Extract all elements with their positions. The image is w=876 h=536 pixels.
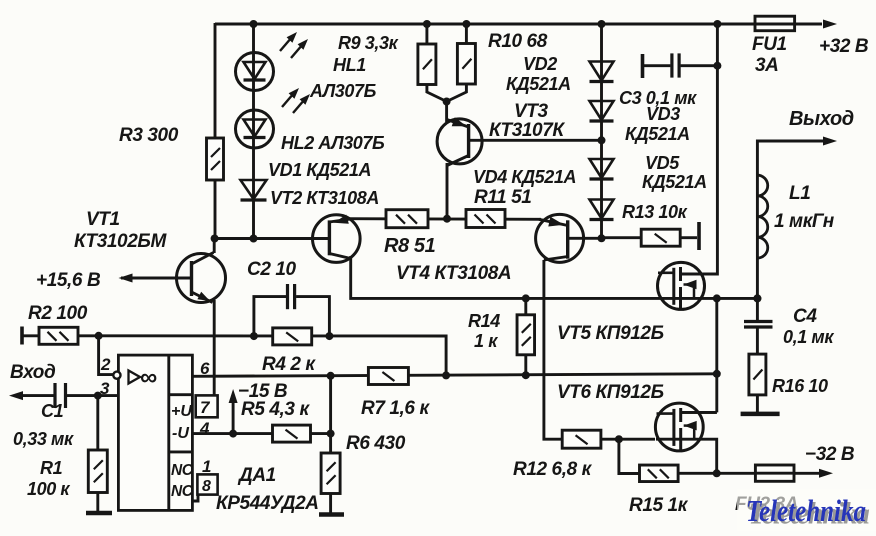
resistor R7 bbox=[361, 368, 430, 420]
svg-text:R11 51: R11 51 bbox=[474, 187, 531, 208]
diode VD5 bbox=[590, 200, 614, 220]
wire VT2 emitter down and across to VT5 gate bbox=[351, 256, 758, 298]
svg-text:VT3: VT3 bbox=[514, 101, 548, 122]
diode VD2 bbox=[590, 62, 614, 82]
op-amp DA1 box bbox=[118, 355, 192, 510]
wire R10 top stub bbox=[465, 24, 468, 46]
junction VT3 base / diode chain bbox=[598, 136, 606, 144]
LED HL1 bbox=[236, 32, 367, 91]
junction top rail / LED chain bbox=[250, 20, 258, 28]
capacitor C4 bbox=[744, 306, 834, 347]
resistor R12 bbox=[513, 430, 601, 480]
transistor VT3 bbox=[437, 101, 565, 166]
wire C4 R16 vertical bbox=[756, 298, 759, 414]
svg-text:VT5 КП912Б: VT5 КП912Б bbox=[557, 323, 664, 344]
junction top rail / R10 bbox=[462, 20, 470, 28]
junction C2 loop left bbox=[250, 332, 258, 340]
pin 3 label bbox=[100, 379, 110, 398]
junction pin4 line / -15V bbox=[229, 430, 237, 438]
junction C4 node bbox=[753, 294, 761, 302]
resistor R9 bbox=[338, 33, 436, 85]
svg-text:АЛ307Б: АЛ307Б bbox=[309, 81, 377, 101]
svg-text:8: 8 bbox=[202, 478, 211, 495]
svg-text:R14: R14 bbox=[468, 311, 500, 331]
junction C1 / R1 / pin3 bbox=[94, 392, 102, 400]
svg-text:∞: ∞ bbox=[140, 364, 157, 391]
svg-text:КД521А: КД521А bbox=[506, 74, 571, 94]
wire C1 input line bbox=[20, 394, 118, 397]
svg-text:L1: L1 bbox=[789, 183, 810, 204]
wire R2 input line bbox=[22, 334, 99, 337]
wire R15 branch bbox=[619, 439, 640, 473]
svg-text:3А: 3А bbox=[755, 55, 779, 76]
svg-text:VD4 КД521А: VD4 КД521А bbox=[473, 167, 576, 187]
svg-text:1 мкГн: 1 мкГн bbox=[774, 211, 835, 232]
wire R9 top stub bbox=[425, 24, 428, 46]
label KD521A VD3 bbox=[625, 124, 690, 144]
wire R4 feedback line bbox=[99, 336, 447, 376]
wire VT3 base to diode chain bbox=[470, 139, 602, 142]
svg-text:-U: -U bbox=[172, 425, 189, 442]
wire diode chain vertical bbox=[600, 24, 603, 239]
resistor R1 bbox=[27, 450, 107, 499]
wire L1 output vertical bbox=[757, 141, 823, 299]
label Vyhod bbox=[789, 108, 854, 130]
capacitor C1 bbox=[13, 383, 74, 449]
label +15.6V bbox=[36, 270, 101, 291]
svg-text:HL2 АЛ307Б: HL2 АЛ307Б bbox=[281, 133, 385, 153]
wire VT5 drain riser bbox=[681, 24, 718, 274]
junction R2 / feedback line bbox=[95, 332, 103, 340]
capacitor C2 bbox=[247, 259, 297, 309]
label AL307B for HL1 bbox=[309, 81, 377, 101]
transistor VT2 bbox=[313, 215, 361, 263]
wire VT3 emitter up bbox=[445, 100, 448, 122]
junction top rail / diode chain bbox=[598, 20, 606, 28]
resistor R2 bbox=[22, 303, 88, 345]
wire minus15 arrow stub bbox=[232, 399, 235, 434]
svg-text:6: 6 bbox=[200, 359, 210, 378]
wire VT4 base to diode chain bottom bbox=[568, 237, 602, 240]
svg-text:R16 10: R16 10 bbox=[772, 376, 828, 396]
svg-text:R13 10к: R13 10к bbox=[622, 202, 688, 222]
wire R12 to VT6 gate bbox=[601, 438, 655, 441]
junction top rail / R9 bbox=[423, 20, 431, 28]
wire VT1 emitter down to pin 7 bbox=[213, 300, 216, 397]
wire +32V top rail bbox=[215, 23, 822, 26]
junction C2 loop right / R4 bbox=[325, 332, 333, 340]
svg-text:R9 3,3к: R9 3,3к bbox=[338, 33, 399, 53]
ground under R6 bbox=[319, 512, 344, 517]
junction R12 / R15 branch bbox=[615, 435, 623, 443]
label VD4 bbox=[473, 167, 576, 187]
label C3 bbox=[619, 88, 697, 108]
svg-text:R3 300: R3 300 bbox=[119, 125, 179, 146]
resistor R15 bbox=[629, 465, 689, 516]
wire R10 bottom converge bbox=[447, 82, 467, 102]
svg-text:Вход: Вход bbox=[10, 362, 56, 383]
LED HL2 bbox=[236, 88, 311, 148]
pin 7 box bbox=[196, 395, 218, 417]
label -U bbox=[172, 425, 189, 442]
svg-text:Выход: Выход bbox=[789, 108, 854, 130]
watermark Teletehnika bbox=[737, 489, 876, 531]
svg-text:R7 1,6 к: R7 1,6 к bbox=[361, 398, 430, 419]
svg-text:+32 В: +32 В bbox=[819, 36, 869, 57]
ground under R1 bbox=[86, 511, 112, 516]
label VT2 type bbox=[270, 188, 379, 208]
inductor L1 bbox=[757, 175, 834, 258]
capacitor C3 bbox=[643, 53, 680, 78]
svg-text:C1: C1 bbox=[41, 401, 64, 421]
svg-text:R10 68: R10 68 bbox=[488, 31, 548, 52]
svg-text:VD5: VD5 bbox=[645, 153, 680, 173]
junction pin4 line / R6 bbox=[327, 430, 335, 438]
fuse FU1 bbox=[752, 16, 795, 76]
wire C2 loop bbox=[254, 297, 286, 337]
svg-text:VD2: VD2 bbox=[523, 54, 557, 74]
junction R15 / FU2 / VT6 source bbox=[713, 469, 721, 477]
label VD2 bbox=[506, 54, 571, 94]
diode VD1 bbox=[241, 160, 372, 200]
label VT5 type bbox=[557, 323, 664, 344]
pin 4 label bbox=[199, 419, 210, 438]
svg-text:4: 4 bbox=[199, 419, 210, 438]
svg-text:R5 4,3 к: R5 4,3 к bbox=[241, 399, 310, 420]
terminal bar R13 bbox=[697, 222, 701, 250]
wire pin 2 branch bbox=[99, 335, 113, 375]
svg-text:ДА1: ДА1 bbox=[237, 465, 276, 486]
resistor R16 bbox=[749, 354, 828, 396]
svg-text:C4: C4 bbox=[793, 306, 817, 327]
svg-text:+15,6 В: +15,6 В bbox=[36, 270, 101, 291]
svg-text:C2 10: C2 10 bbox=[247, 259, 297, 280]
wire output node vertical bbox=[715, 298, 718, 412]
wire R8 line VT2 collector to VT4 emitter bbox=[349, 217, 541, 221]
svg-text:+U: +U bbox=[171, 403, 192, 420]
label KD521A VD5 bbox=[642, 172, 707, 192]
svg-text:VT6 КП912Б: VT6 КП912Б bbox=[557, 382, 664, 403]
wire R3 vertical branch bbox=[214, 23, 217, 240]
resistor R8 bbox=[384, 210, 436, 257]
wire VT6 chord to source corner bbox=[656, 439, 717, 473]
resistor R14 bbox=[468, 311, 535, 355]
svg-text:2: 2 bbox=[100, 355, 111, 374]
svg-text:КД521А: КД521А bbox=[642, 172, 707, 192]
svg-text:VT4 КТ3108А: VT4 КТ3108А bbox=[396, 263, 511, 284]
svg-text:КТ3107К: КТ3107К bbox=[489, 120, 565, 141]
arrow output bbox=[823, 137, 837, 146]
arrow -15V bbox=[229, 381, 288, 403]
junction output line end / output node bbox=[713, 370, 721, 378]
label +U bbox=[171, 403, 192, 420]
diode VD3 bbox=[590, 101, 614, 121]
svg-text:R12 6,8 к: R12 6,8 к bbox=[513, 459, 593, 480]
svg-text:R8 51: R8 51 bbox=[384, 235, 436, 257]
wire R1 vertical bbox=[96, 396, 99, 513]
svg-text:R1: R1 bbox=[40, 458, 63, 478]
svg-text:NC: NC bbox=[171, 462, 194, 479]
wire -32V line bbox=[678, 472, 820, 475]
junction LED chain bottom bbox=[250, 235, 258, 243]
diode VD4 bbox=[590, 159, 614, 179]
transistor VT4 bbox=[536, 214, 584, 262]
label VT4 type bbox=[396, 263, 511, 284]
wire VT6 drain lead bbox=[681, 411, 717, 414]
junction diode chain bottom / VT4 base bbox=[598, 234, 606, 242]
arrow input bbox=[9, 391, 23, 400]
junction gate wire / output node bbox=[713, 294, 721, 302]
label NC top bbox=[171, 462, 194, 479]
arrow +32V bbox=[819, 20, 869, 58]
svg-text:VD3: VD3 bbox=[646, 104, 680, 124]
label DA1 bbox=[216, 465, 319, 514]
svg-text:FU1: FU1 bbox=[752, 34, 787, 55]
pin 8 box bbox=[192, 474, 217, 501]
resistor R3 bbox=[119, 125, 224, 180]
junction C3 / drain riser bbox=[713, 62, 721, 70]
junction gate wire / R14 top bbox=[522, 294, 530, 302]
wire VT1 collector to VT2 base horizontal bbox=[214, 237, 330, 240]
label VD3 bbox=[646, 104, 680, 124]
wire VT3 collector down bbox=[446, 163, 449, 219]
label HL2 AL307B bbox=[281, 133, 385, 153]
junction R3 / VT1 collector bbox=[211, 235, 219, 243]
pin 2 inversion circle bbox=[100, 355, 121, 379]
wire R13 line bbox=[602, 236, 698, 239]
junction top rail / VT5 drain riser bbox=[713, 20, 721, 28]
resistor R11 bbox=[466, 187, 531, 228]
op-amp symbol triangle-infinity bbox=[129, 364, 158, 391]
transistor VT1 bbox=[74, 209, 226, 303]
mosfet VT5 bbox=[658, 262, 717, 309]
svg-text:R15 1к: R15 1к bbox=[629, 495, 689, 516]
resistor R4 bbox=[262, 328, 316, 375]
wire pin 4 line bbox=[192, 432, 330, 435]
svg-text:HL1: HL1 bbox=[333, 55, 366, 75]
pin 6 label bbox=[200, 359, 210, 378]
resistor R10 bbox=[457, 31, 547, 84]
wire op-amp output line pin6 to VT5/VT6 area bbox=[192, 374, 716, 377]
label VT6 type bbox=[557, 382, 664, 403]
arrow -32V bbox=[805, 444, 855, 478]
svg-text:VD1 КД521А: VD1 КД521А bbox=[268, 160, 371, 180]
svg-text:R2 100: R2 100 bbox=[28, 303, 88, 324]
ground under R16 bbox=[741, 412, 780, 417]
junction R9 R10 to VT3 bbox=[443, 98, 451, 106]
junction output line / R6 branch bbox=[327, 372, 335, 380]
mosfet VT6 bbox=[655, 403, 716, 451]
svg-text:VT2 КТ3108А: VT2 КТ3108А bbox=[270, 188, 379, 208]
wire R9 bottom converge bbox=[427, 82, 447, 102]
junction output line / R4 feedback bbox=[442, 371, 450, 379]
wire R14 branch vertical bbox=[524, 298, 527, 375]
junction output line / R14 bottom bbox=[522, 371, 530, 379]
svg-text:VT1: VT1 bbox=[86, 209, 120, 230]
label Vhod bbox=[10, 362, 56, 383]
label NC bottom bbox=[171, 483, 194, 500]
svg-text:0,33 мк: 0,33 мк bbox=[13, 429, 74, 449]
wire C3 link bbox=[643, 64, 718, 67]
svg-text:100 к: 100 к bbox=[27, 479, 70, 499]
svg-text:1 к: 1 к bbox=[474, 331, 498, 351]
resistor R6 bbox=[321, 433, 406, 494]
svg-text:КД521А: КД521А bbox=[625, 124, 690, 144]
resistor R5 bbox=[241, 399, 311, 442]
svg-text:0,1 мк: 0,1 мк bbox=[783, 327, 834, 347]
fuse FU2 bbox=[735, 465, 798, 515]
svg-text:Teletehnika: Teletehnika bbox=[746, 493, 866, 528]
wire R6 branch vertical bbox=[329, 376, 332, 515]
junction gate wire / L1 C4 bbox=[753, 294, 761, 302]
wire VT4 collector down to R12 bbox=[544, 260, 563, 439]
svg-text:−32 В: −32 В bbox=[805, 444, 855, 465]
junction R8 R11 / VT3 collector bbox=[443, 215, 451, 223]
wire LED chain vertical bbox=[252, 24, 255, 240]
pin 1 label bbox=[202, 457, 211, 476]
resistor R13 bbox=[622, 202, 688, 246]
svg-text:R4 2 к: R4 2 к bbox=[262, 354, 316, 375]
svg-text:R6 430: R6 430 bbox=[346, 433, 406, 454]
label VD5 bbox=[645, 153, 680, 173]
wire C2 loop right bbox=[296, 297, 329, 337]
svg-text:КР544УД2А: КР544УД2А bbox=[216, 493, 319, 514]
svg-text:КТ3102БМ: КТ3102БМ bbox=[74, 231, 167, 252]
svg-text:NC: NC bbox=[171, 483, 194, 500]
